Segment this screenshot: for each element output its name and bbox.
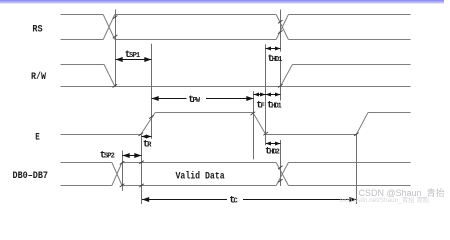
svg-text:R/W: R/W — [31, 71, 47, 83]
tick RS X2 lower diagonal — [278, 30, 283, 33]
svg-text:RS: RS — [32, 24, 42, 36]
svg-text:C: C — [234, 198, 238, 206]
RS high wire segment 2 — [115, 14, 276, 16]
RS low wire segment 2 — [115, 39, 276, 41]
RS low wire segment 3 — [288, 39, 410, 41]
svg-text:SP1: SP1 — [129, 52, 140, 60]
RS low wire segment 1 — [61, 39, 104, 41]
measurement line V6 upper at RS crossing X2 — [280, 10, 282, 52]
arrow tHD1 upper — [266, 47, 281, 51]
measurement line V1 at RS crossing X1 — [115, 10, 117, 87]
arrow tPW — [152, 96, 254, 101]
R/W high wire segment 2 — [292, 64, 410, 66]
arrow tF — [254, 93, 266, 97]
tick E rise2 bottom — [354, 133, 359, 136]
top border bar — [0, 0, 444, 4]
tick DB X1 upper — [120, 161, 125, 164]
tick DB X1 lower — [120, 184, 125, 187]
R/W falling edge — [104, 65, 115, 87]
RS high wire segment 1 — [61, 14, 104, 16]
tick DB X2 upper diagonal — [278, 166, 283, 169]
svg-text:HD1: HD1 — [271, 102, 281, 110]
DB0-DB7 upper wire segment 1 — [61, 162, 112, 164]
measurement line V2 at DB crossing X1 — [122, 151, 124, 191]
tick V3 at DB lower — [139, 184, 144, 187]
arrow tHD1 lower — [266, 93, 281, 97]
svg-text:HD2: HD2 — [269, 149, 279, 157]
tick E fall bottom — [263, 132, 268, 135]
RS high wire segment 3 — [288, 14, 410, 16]
measurement line V5 at E fall bottom — [265, 44, 267, 145]
arrow tSP1 — [116, 57, 152, 62]
svg-text:Valid Data: Valid Data — [176, 171, 226, 183]
DB0-DB7 lower wire segment 3 — [288, 185, 410, 187]
svg-text:PW: PW — [193, 97, 201, 105]
R/W rising edge — [280, 65, 292, 87]
tick E rise1 bottom — [139, 133, 144, 136]
RS crossing X2 — [276, 15, 288, 40]
svg-text:R: R — [147, 142, 152, 150]
tick E rise1 upper — [149, 115, 154, 118]
arrow tC — [142, 197, 357, 202]
measurement line V6 lower at DB crossing X2 — [280, 140, 282, 186]
E low wire segment 2 — [266, 134, 357, 136]
tick E fall top — [251, 112, 256, 115]
measurement line V3 at E rise 1 bottom — [141, 135, 143, 205]
E falling edge — [253, 113, 266, 135]
svg-text:E: E — [35, 131, 40, 143]
R/W high wire segment 1 — [61, 64, 105, 66]
R/W low wire — [61, 86, 411, 88]
E high wire segment 1 — [155, 112, 253, 114]
arrow tHD2 — [266, 142, 281, 146]
svg-text:HD1: HD1 — [272, 56, 282, 64]
E rising edge 1 — [141, 113, 156, 135]
DB0-DB7 upper wire segment 2 — [122, 162, 276, 164]
tick RS X1 lower — [113, 35, 118, 38]
DB0-DB7 crossing X2 — [276, 163, 288, 186]
svg-text:SP2: SP2 — [104, 153, 115, 161]
DB0-DB7 upper wire segment 3 — [288, 162, 410, 164]
E low wire segment 1 — [61, 134, 141, 136]
DB0-DB7 lower wire segment 1 — [61, 185, 112, 187]
E rising edge 2 — [356, 113, 368, 135]
E high wire segment 2 — [368, 112, 411, 114]
arrow tSP2 — [122, 153, 141, 158]
svg-text:blog.csdn.net/Shaun_青抬 青抬: blog.csdn.net/Shaun_青抬 青抬 — [340, 195, 430, 204]
tick R/W rise bottom — [278, 84, 283, 87]
tick V3 at DB upper — [139, 161, 144, 164]
RS crossing X1 — [103, 15, 115, 40]
measurement line VA at E fall top — [253, 91, 255, 159]
measurement line V4 at E rise 1 top — [151, 44, 153, 139]
svg-text:DB0–DB7: DB0–DB7 — [13, 170, 49, 182]
measurement line V7 at E rise 2 — [356, 135, 358, 205]
tick DB X2 lower diagonal — [278, 179, 283, 182]
DB0-DB7 lower wire segment 2 — [122, 185, 276, 187]
measurement line V6 middle at R/W rise — [280, 59, 282, 101]
svg-text:F: F — [261, 102, 265, 110]
tick R/W fall bottom — [113, 84, 118, 87]
DB0-DB7 crossing X1 — [112, 163, 122, 186]
tick RS X1 upper — [113, 16, 118, 19]
tick RS X2 upper diagonal — [278, 20, 283, 23]
arrow tR — [142, 135, 152, 139]
